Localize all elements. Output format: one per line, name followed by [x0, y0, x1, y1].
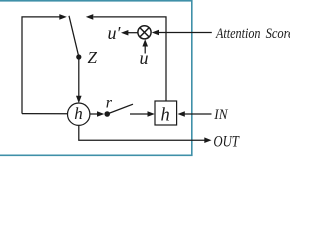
svg-text:Z: Z [88, 48, 98, 67]
svg-text:IN: IN [213, 107, 228, 123]
svg-text:Score: Score [266, 26, 290, 42]
svg-text:OUT: OUT [213, 134, 240, 151]
svg-text:h: h [74, 104, 83, 123]
svg-text:u: u [140, 48, 149, 68]
svg-text:u′: u′ [108, 23, 122, 43]
svg-text:r: r [106, 94, 113, 111]
svg-text:Attention: Attention [215, 26, 260, 42]
svg-text:h: h [161, 106, 170, 126]
